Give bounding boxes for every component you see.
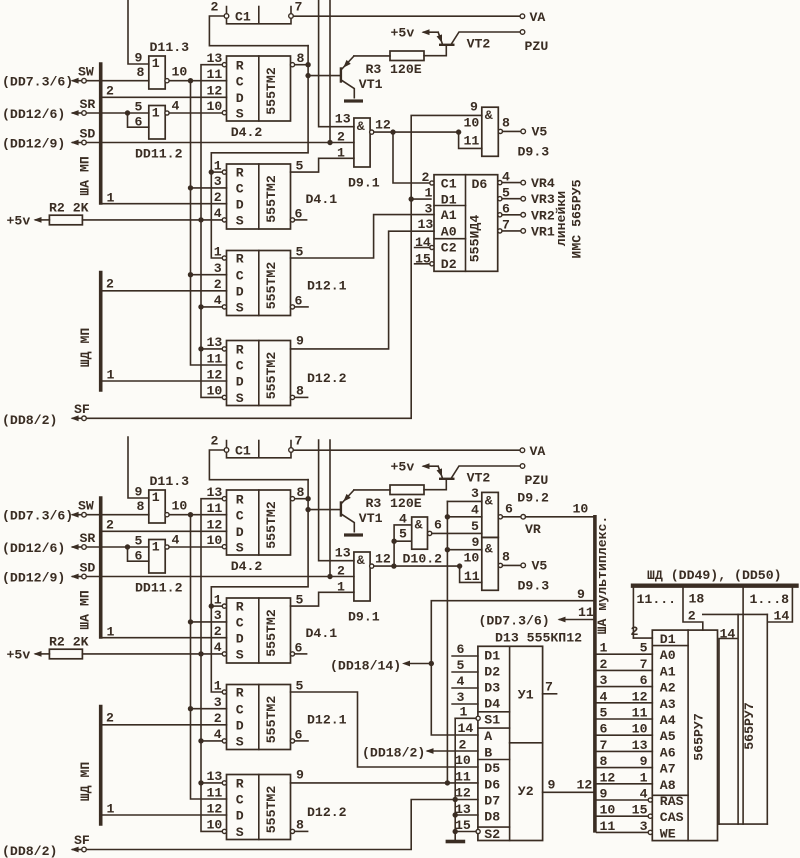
svg-text:D2: D2 bbox=[484, 665, 500, 680]
svg-text:C: C bbox=[236, 793, 244, 808]
junction D10.2 pin5 bbox=[391, 539, 396, 544]
gate D9.3b box bbox=[482, 537, 499, 590]
svg-text:3: 3 bbox=[457, 690, 465, 705]
svg-text:VR4: VR4 bbox=[531, 176, 555, 191]
svg-text:1: 1 bbox=[214, 592, 222, 607]
wire D6 out 7 bbox=[502, 230, 521, 232]
svg-text:13: 13 bbox=[418, 217, 434, 232]
gate D10.2 box bbox=[412, 517, 428, 549]
D12.1b out6 stub bbox=[295, 740, 308, 742]
D13 cell line S1/A bbox=[478, 727, 510, 729]
svg-text:1: 1 bbox=[337, 580, 345, 595]
svg-text:11...: 11... bbox=[637, 592, 677, 607]
svg-text:D6: D6 bbox=[472, 177, 488, 192]
chip1 WE bubble bbox=[648, 830, 652, 834]
D12.1 R bubble bbox=[222, 256, 226, 260]
wire bus 2 to D4.2 Db bbox=[101, 530, 227, 532]
svg-text:5: 5 bbox=[296, 593, 304, 608]
svg-text:S: S bbox=[236, 648, 244, 663]
D12.2b out8 bubble bbox=[290, 829, 294, 833]
svg-text:1: 1 bbox=[152, 540, 160, 555]
svg-text:3: 3 bbox=[425, 202, 433, 217]
capacitor C1 pin leads bbox=[227, 7, 292, 14]
wire tap D4.1b C bbox=[191, 621, 227, 623]
svg-text:D: D bbox=[236, 197, 244, 212]
wire vertical to D9.1 pin13 bbox=[319, 0, 354, 127]
svg-text:5: 5 bbox=[600, 706, 608, 721]
flip-flop D12.2b box bbox=[227, 775, 291, 840]
junction on SDb line bbox=[327, 574, 332, 579]
svg-text:9: 9 bbox=[600, 787, 608, 802]
wire set/reset netb bbox=[201, 499, 224, 832]
wire tap to D4.1 R bbox=[211, 171, 222, 173]
arrowhead +5v VT2 bbox=[422, 29, 430, 35]
chip2 right edge bbox=[766, 614, 768, 824]
wire +5v arrow at VT2 bbox=[424, 31, 439, 33]
output SF terminal bbox=[82, 416, 87, 421]
wire SDb line bbox=[86, 576, 354, 578]
svg-text:C: C bbox=[236, 359, 244, 374]
ground at D13 bbox=[446, 840, 466, 844]
wire bus 2 to D4.2 D bbox=[101, 96, 227, 98]
svg-text:3: 3 bbox=[214, 608, 222, 623]
svg-text:2: 2 bbox=[106, 711, 114, 726]
svg-text:555TM2: 555TM2 bbox=[264, 786, 279, 834]
svg-text:120E: 120E bbox=[390, 62, 422, 77]
wire R3b to VT1 collector bbox=[354, 489, 390, 491]
D13 Y split line bbox=[510, 742, 543, 744]
wire SR to pin6 bbox=[128, 113, 149, 127]
wire SFb to D13 D7 bbox=[86, 800, 478, 850]
svg-text:1: 1 bbox=[425, 186, 433, 201]
wire clock netb vertical bbox=[191, 515, 227, 799]
chip2 top edge bbox=[703, 613, 768, 615]
svg-text:D5: D5 bbox=[484, 761, 500, 776]
svg-text:4: 4 bbox=[502, 169, 510, 184]
svg-text:S: S bbox=[236, 825, 244, 840]
flip-flop D4.2 divider bbox=[258, 56, 260, 121]
wire bus 1 to D4.1 D bbox=[101, 203, 227, 205]
svg-text:D: D bbox=[236, 809, 244, 824]
svg-text:B: B bbox=[484, 745, 492, 760]
flip-flop D4.1 divider bbox=[258, 164, 260, 229]
wire R2b to D4.1 S bbox=[82, 653, 222, 655]
svg-text:ША МП: ША МП bbox=[77, 156, 92, 196]
wire tap D10.2 pin5 bbox=[394, 540, 412, 542]
chip1 CAS bubble bbox=[648, 814, 652, 818]
svg-text:4: 4 bbox=[399, 512, 407, 527]
terminal V5 bbox=[521, 129, 526, 134]
input SD terminal bbox=[82, 140, 87, 145]
svg-text:10: 10 bbox=[172, 65, 188, 80]
flip-flop D4.2b box bbox=[227, 490, 291, 555]
wire R3b to VT2 base bbox=[424, 480, 446, 490]
svg-text:D9.2: D9.2 bbox=[517, 491, 549, 506]
svg-text:7: 7 bbox=[502, 218, 510, 233]
input SR arrow bbox=[73, 112, 82, 114]
junction R2 net at D12.2 R bbox=[198, 346, 203, 351]
svg-text:4: 4 bbox=[214, 206, 222, 221]
input SWb arrow bbox=[73, 514, 82, 516]
wire D9.2 out to VR bbox=[503, 516, 521, 518]
svg-text:13: 13 bbox=[207, 485, 223, 500]
svg-text:565РУ7: 565РУ7 bbox=[692, 713, 707, 761]
D6 D2 stub bbox=[415, 263, 430, 265]
svg-text:D: D bbox=[236, 375, 244, 390]
svg-text:11: 11 bbox=[464, 569, 480, 584]
svg-text:3: 3 bbox=[214, 174, 222, 189]
wire tap D12.1 S bbox=[201, 306, 222, 308]
wire bus row A6 bbox=[597, 750, 653, 752]
wire feed D10.2 pins bbox=[394, 525, 412, 566]
svg-text:DD11.2: DD11.2 bbox=[135, 147, 183, 162]
wire C1b pin2 to Q8 node bbox=[209, 450, 308, 480]
svg-text:&: & bbox=[485, 494, 493, 509]
svg-text:13: 13 bbox=[207, 51, 223, 66]
flip-flop D4.1b divider bbox=[258, 598, 260, 663]
D9.1b out bubble bbox=[370, 564, 374, 568]
wire vertical to D9.1b pin13 bbox=[319, 440, 354, 561]
wire bus row RAS bbox=[597, 799, 649, 801]
input SDb terminal bbox=[82, 574, 87, 579]
svg-text:1: 1 bbox=[152, 106, 160, 121]
svg-text:4: 4 bbox=[471, 503, 479, 518]
wire +5v arrow at VT2b bbox=[424, 465, 439, 467]
wire bus row WE bbox=[597, 831, 649, 833]
D12.1b out6 bubble bbox=[290, 739, 294, 743]
chip1 D1 cell line bbox=[652, 645, 688, 647]
D12.2 out8 bubble bbox=[290, 395, 294, 399]
svg-text:6: 6 bbox=[295, 293, 303, 308]
svg-text:+5v: +5v bbox=[391, 26, 415, 41]
svg-text:C: C bbox=[236, 74, 244, 89]
svg-text:6: 6 bbox=[295, 206, 303, 221]
output SFb terminal bbox=[82, 847, 87, 852]
svg-text:4: 4 bbox=[214, 293, 222, 308]
gate D9.1b box bbox=[354, 552, 370, 601]
svg-text:PZU: PZU bbox=[525, 39, 549, 54]
transistor VT1 base bar bbox=[340, 67, 342, 82]
svg-text:4: 4 bbox=[457, 674, 465, 689]
D4.1 out6 stub bbox=[295, 219, 307, 221]
svg-text:D9.1: D9.1 bbox=[348, 610, 380, 625]
svg-text:6: 6 bbox=[457, 642, 465, 657]
svg-text:(DD12/6): (DD12/6) bbox=[2, 107, 65, 122]
input SRb arrow bbox=[73, 546, 82, 548]
junction chain S2 bbox=[453, 829, 458, 834]
D9.1 out bubble bbox=[370, 130, 374, 134]
svg-text:3: 3 bbox=[600, 673, 608, 688]
junction chain D8 bbox=[453, 812, 458, 817]
svg-text:R: R bbox=[236, 58, 244, 73]
D4.2b R bubble bbox=[222, 497, 226, 501]
svg-text:6: 6 bbox=[600, 722, 608, 737]
transistor VT2b base bar bbox=[439, 478, 455, 480]
svg-text:10: 10 bbox=[207, 533, 223, 548]
svg-text:12: 12 bbox=[600, 770, 616, 785]
svg-text:2: 2 bbox=[337, 130, 345, 145]
terminal PZUb bbox=[520, 464, 525, 469]
wire D13 Y2 out to bus bbox=[543, 791, 594, 793]
D13 stub 3 bbox=[452, 703, 478, 705]
svg-text:6: 6 bbox=[505, 502, 513, 517]
svg-text:4: 4 bbox=[172, 533, 180, 548]
wire bus row A3 bbox=[597, 702, 653, 704]
svg-text:D12.1: D12.1 bbox=[307, 713, 347, 728]
junction DD18/14 bbox=[429, 661, 434, 666]
wire jog to D9.3b pin11 bbox=[460, 566, 482, 582]
wire bus row A5 bbox=[597, 734, 653, 736]
D12.1b R bubble bbox=[222, 690, 226, 694]
svg-text:5: 5 bbox=[640, 641, 648, 656]
svg-text:C: C bbox=[236, 702, 244, 717]
wire D12.1b out5 to D13 D5 bbox=[291, 692, 478, 767]
VT1b collector diagonal bbox=[342, 490, 354, 503]
svg-text:(DD18/2): (DD18/2) bbox=[362, 745, 425, 760]
wire D9.1 out12 line bbox=[374, 131, 459, 133]
transistor VT2b emitter bbox=[438, 466, 442, 477]
svg-text:(DD12/9): (DD12/9) bbox=[2, 571, 65, 586]
svg-text:8: 8 bbox=[502, 550, 510, 565]
logic element DD11.2b box bbox=[149, 540, 165, 574]
svg-text:SW: SW bbox=[78, 499, 94, 514]
wire busD 2 to D12.1 D bbox=[101, 290, 227, 292]
svg-text:12: 12 bbox=[375, 552, 391, 567]
wire D9.1b out12 line bbox=[374, 565, 460, 567]
svg-text:D9.3: D9.3 bbox=[518, 145, 550, 160]
capacitor C1b plate bbox=[258, 441, 260, 458]
svg-text:SD: SD bbox=[80, 561, 96, 576]
wire D6 out 6 bbox=[502, 214, 521, 216]
svg-text:8: 8 bbox=[600, 754, 608, 769]
wire to DD18/14 bbox=[410, 663, 432, 665]
svg-text:11: 11 bbox=[207, 785, 223, 800]
D4.2b S bubble bbox=[222, 545, 226, 549]
VT2 emitter arrowhead bbox=[437, 34, 445, 44]
D13 stub 6 bbox=[452, 655, 478, 657]
svg-text:&: & bbox=[485, 542, 493, 557]
svg-text:S: S bbox=[236, 735, 244, 750]
wire bus row A1 bbox=[597, 669, 653, 671]
svg-text:10: 10 bbox=[632, 722, 648, 737]
svg-text:D9.1: D9.1 bbox=[348, 176, 380, 191]
input SR arrowhead bbox=[71, 110, 79, 116]
junction Q8b b bbox=[305, 507, 310, 512]
svg-text:10: 10 bbox=[172, 499, 188, 514]
D6 C1 bubble bbox=[430, 181, 434, 185]
svg-text:D11.3: D11.3 bbox=[150, 474, 190, 489]
svg-text:12: 12 bbox=[207, 84, 223, 99]
svg-text:15: 15 bbox=[632, 803, 648, 818]
svg-text:10: 10 bbox=[207, 384, 223, 399]
svg-text:&: & bbox=[357, 553, 365, 568]
svg-text:2: 2 bbox=[106, 84, 114, 99]
bus bar ShD bbox=[633, 584, 797, 588]
capacitor C1b pin 2 terminal bbox=[224, 448, 229, 453]
terminal VR1 bbox=[521, 229, 526, 234]
ribbon cell v3 bbox=[742, 588, 744, 824]
svg-text:8: 8 bbox=[297, 51, 305, 66]
bus ShA multiplex bbox=[593, 517, 597, 831]
wire vertical to SDb line bbox=[329, 440, 331, 576]
svg-text:SD: SD bbox=[80, 127, 96, 142]
wire bus row A2 bbox=[597, 686, 653, 688]
svg-text:C1: C1 bbox=[235, 10, 251, 25]
svg-text:D2: D2 bbox=[441, 257, 457, 272]
wire bus 1 to D4.1 Db bbox=[101, 637, 227, 639]
junction gate net D9.3b pin9 bbox=[445, 547, 450, 552]
wire VR to bus line10 bbox=[526, 516, 594, 518]
chip mid left/top bbox=[719, 614, 738, 824]
D6 out bubble 7 bbox=[498, 229, 502, 233]
terminal VR2 bbox=[521, 213, 526, 218]
svg-text:2: 2 bbox=[106, 518, 114, 533]
wire D6 out 5 bbox=[502, 198, 521, 200]
svg-text:A4: A4 bbox=[660, 713, 676, 728]
D13 Y1 stub bbox=[543, 693, 557, 695]
VT2b emitter arrowhead bbox=[437, 468, 445, 478]
svg-text:9: 9 bbox=[296, 334, 304, 349]
output bubble D11.3b bbox=[165, 513, 169, 517]
svg-text:WE: WE bbox=[660, 826, 676, 841]
D4.2b out bubble bbox=[290, 497, 294, 501]
gate D9.1 box bbox=[354, 118, 370, 167]
svg-text:12: 12 bbox=[207, 367, 223, 382]
svg-text:D12.2: D12.2 bbox=[307, 371, 347, 386]
svg-text:13: 13 bbox=[207, 769, 223, 784]
svg-text:5: 5 bbox=[296, 245, 304, 260]
svg-text:A3: A3 bbox=[660, 697, 676, 712]
svg-text:D1: D1 bbox=[660, 632, 676, 647]
D13 stub 4 bbox=[452, 687, 478, 689]
svg-text:6: 6 bbox=[502, 202, 510, 217]
input SDb arrowhead bbox=[71, 574, 79, 580]
wire tap D8 bbox=[455, 814, 478, 816]
wire D9.2 pin3 bbox=[447, 500, 481, 502]
input SWb terminal bbox=[82, 512, 87, 517]
svg-text:1: 1 bbox=[152, 56, 160, 71]
svg-text:3: 3 bbox=[640, 819, 648, 834]
svg-text:11: 11 bbox=[207, 501, 223, 516]
junction on SD line bbox=[327, 140, 332, 145]
svg-text:2: 2 bbox=[214, 277, 222, 292]
svg-text:D12.1: D12.1 bbox=[307, 279, 347, 294]
D12.1 S bubble bbox=[222, 305, 226, 309]
wire SD line bbox=[86, 142, 354, 144]
arrowhead DD18/14 bbox=[402, 661, 410, 667]
wire VT2 collector to PZU bbox=[452, 32, 521, 44]
transistor VT2 emitter bbox=[438, 32, 442, 43]
svg-text:2: 2 bbox=[422, 170, 430, 185]
D13 cell line D4/S1 bbox=[478, 711, 510, 713]
flip-flop D12.1 divider bbox=[258, 251, 260, 316]
svg-text:(DD7.3/6): (DD7.3/6) bbox=[479, 614, 550, 629]
SFb arrow bbox=[73, 849, 82, 851]
svg-text:линейки: линейки bbox=[554, 191, 569, 246]
svg-text:13: 13 bbox=[335, 112, 351, 127]
svg-text:4: 4 bbox=[214, 727, 222, 742]
svg-text:9: 9 bbox=[470, 100, 478, 115]
svg-text:S: S bbox=[236, 214, 244, 229]
svg-text:4: 4 bbox=[172, 99, 180, 114]
input SW arrowhead bbox=[71, 78, 79, 84]
input SRb arrowhead bbox=[71, 544, 79, 550]
wire D4.1b out5 to D9.1 pin1 bbox=[291, 592, 354, 606]
chip1 RAS bubble bbox=[648, 798, 652, 802]
svg-text:(DD8/2): (DD8/2) bbox=[2, 413, 57, 428]
gate D9.3 box bbox=[482, 107, 499, 156]
svg-text:A1: A1 bbox=[660, 664, 676, 679]
svg-text:(DD18/14): (DD18/14) bbox=[330, 659, 401, 674]
svg-text:D9.3: D9.3 bbox=[518, 579, 550, 594]
capacitor C1b pin 7 terminal bbox=[289, 448, 294, 453]
wire SRb to pin6 bbox=[128, 547, 149, 561]
svg-text:4: 4 bbox=[214, 640, 222, 655]
D4.1b out6 stub bbox=[295, 653, 307, 655]
svg-text:VR1: VR1 bbox=[531, 224, 555, 239]
svg-text:D13 555КП12: D13 555КП12 bbox=[495, 631, 582, 646]
svg-text:D: D bbox=[236, 91, 244, 106]
wire pin9 D11.3b bbox=[128, 437, 149, 498]
svg-text:9: 9 bbox=[640, 754, 648, 769]
svg-text:6: 6 bbox=[295, 640, 303, 655]
svg-text:+5v: +5v bbox=[7, 648, 31, 663]
wire DD11.2b out to D4.2 S bbox=[169, 546, 224, 548]
svg-text:120E: 120E bbox=[390, 496, 422, 511]
D6 out bubble 6 bbox=[498, 213, 502, 217]
svg-text:555TM2: 555TM2 bbox=[264, 501, 279, 549]
svg-text:C2: C2 bbox=[441, 241, 457, 256]
wire SRb line bbox=[86, 546, 149, 548]
svg-text:1: 1 bbox=[214, 158, 222, 173]
capacitor C1b pin leads bbox=[227, 441, 292, 448]
arrowhead +5v VT2b bbox=[422, 463, 430, 469]
wire VT2b collector to PZU bbox=[452, 466, 521, 478]
svg-text:D7: D7 bbox=[484, 794, 500, 809]
svg-text:13: 13 bbox=[335, 546, 351, 561]
svg-text:VA: VA bbox=[530, 444, 546, 459]
wire D4.2b output 8 bbox=[295, 498, 308, 500]
svg-text:6: 6 bbox=[434, 518, 442, 533]
wire tap D12.1 C bbox=[191, 274, 227, 276]
svg-text:4: 4 bbox=[640, 787, 648, 802]
svg-text:7: 7 bbox=[295, 434, 303, 449]
svg-text:A6: A6 bbox=[660, 745, 676, 760]
junction clock at D4.1 C bbox=[188, 185, 193, 190]
wire pin9 D11.3 bbox=[128, 0, 149, 64]
svg-text:4: 4 bbox=[600, 689, 608, 704]
D4.1b S bubble bbox=[222, 652, 226, 656]
wire out12 down to D6 C1 bbox=[393, 132, 430, 183]
svg-text:D: D bbox=[236, 525, 244, 540]
svg-text:D: D bbox=[236, 284, 244, 299]
svg-text:15: 15 bbox=[415, 252, 431, 267]
svg-text:11: 11 bbox=[207, 67, 223, 82]
D13 S2 bubble bbox=[476, 829, 480, 833]
wire D9.3b pin9 bbox=[447, 549, 481, 551]
svg-text:10: 10 bbox=[600, 803, 616, 818]
svg-text:8: 8 bbox=[296, 384, 304, 399]
wire S1 from ground chain bbox=[455, 717, 476, 719]
svg-text:R: R bbox=[236, 252, 244, 267]
svg-text:2: 2 bbox=[106, 277, 114, 292]
VT1b emitter bbox=[342, 515, 354, 532]
svg-text:14: 14 bbox=[458, 721, 474, 736]
svg-text:CAS: CAS bbox=[660, 810, 684, 825]
svg-text:ИМС 565РУ5: ИМС 565РУ5 bbox=[570, 179, 585, 258]
junction R2 net at D4.1 S bbox=[198, 217, 203, 222]
wire tap D12.2 R bbox=[201, 348, 222, 350]
